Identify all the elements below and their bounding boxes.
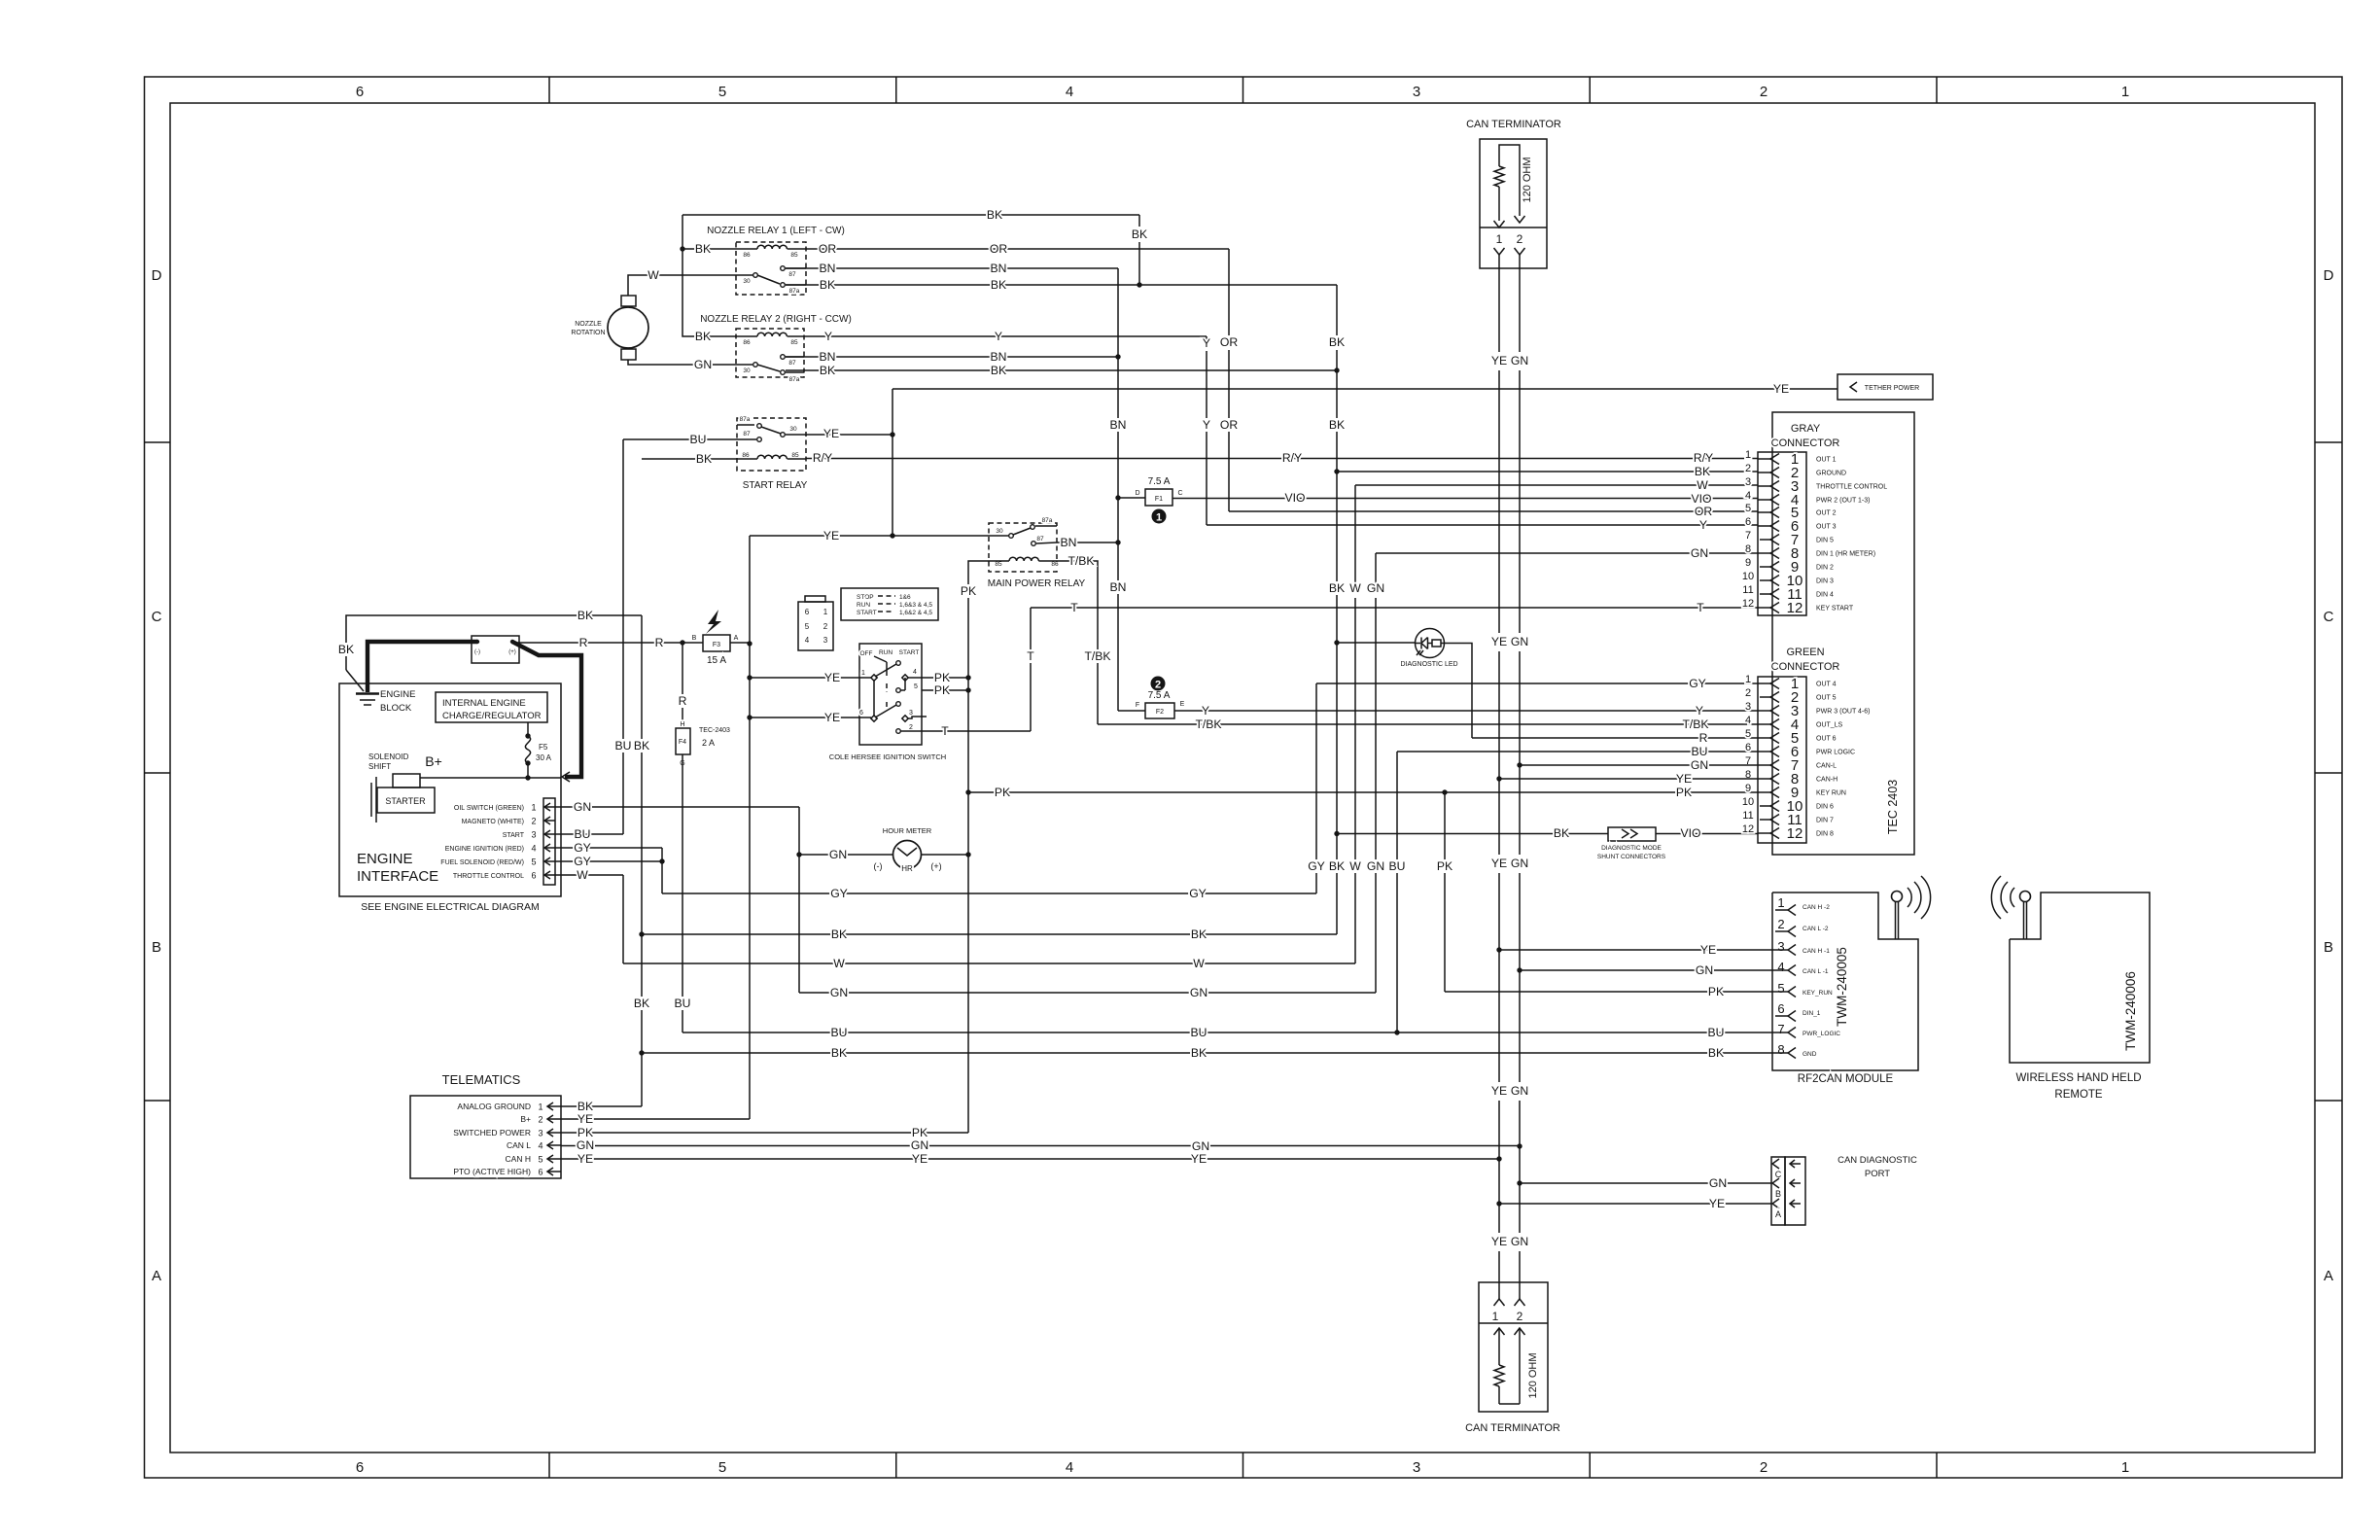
svg-text:PK: PK xyxy=(934,683,950,697)
svg-text:CAN DIAGNOSTIC: CAN DIAGNOSTIC xyxy=(1837,1155,1917,1166)
svg-text:BK: BK xyxy=(1191,927,1207,941)
svg-text:BN: BN xyxy=(1110,418,1127,432)
svg-text:GN: GN xyxy=(1696,963,1713,977)
svg-text:GN: GN xyxy=(694,358,712,371)
svg-text:GN: GN xyxy=(1511,354,1528,367)
svg-text:OUT_LS: OUT_LS xyxy=(1816,722,1843,729)
svg-text:YE: YE xyxy=(577,1152,593,1166)
svg-text:A: A xyxy=(734,635,739,642)
svg-text:PWR LOGIC: PWR LOGIC xyxy=(1816,750,1855,756)
svg-text:5: 5 xyxy=(1745,503,1751,514)
connector block 6-pin xyxy=(798,596,833,650)
svg-text:YE: YE xyxy=(1491,1084,1507,1098)
svg-text:BK: BK xyxy=(1329,418,1345,432)
wire GN CAN L-1 to RF2CAN pin4 xyxy=(1520,963,1772,977)
diagnostic LED xyxy=(1337,629,1458,669)
svg-text:HR: HR xyxy=(901,864,913,873)
svg-text:T/BK: T/BK xyxy=(1067,554,1094,568)
svg-text:BK: BK xyxy=(634,997,649,1010)
svg-text:12: 12 xyxy=(1742,598,1754,610)
svg-text:B: B xyxy=(692,635,697,642)
wire YE CAN-H to green pin8 xyxy=(1499,772,1758,786)
svg-text:MAGNETO (WHITE): MAGNETO (WHITE) xyxy=(462,819,524,825)
svg-text:2: 2 xyxy=(1745,463,1751,474)
engine interface block xyxy=(339,683,561,913)
wire BU F4 output to PWR LOGIC xyxy=(675,745,1772,1039)
svg-text:BN: BN xyxy=(820,350,836,364)
svg-text:STOP: STOP xyxy=(857,594,874,601)
svg-text:GN: GN xyxy=(1709,1176,1727,1190)
svg-text:BN: BN xyxy=(1110,580,1127,594)
svg-text:C: C xyxy=(152,609,162,625)
svg-text:5: 5 xyxy=(1745,728,1751,740)
svg-text:GN: GN xyxy=(1691,758,1708,772)
relay NOZZLE RELAY 1 (LEFT - CW) xyxy=(707,226,845,295)
svg-text:BK: BK xyxy=(987,208,1002,222)
svg-text:2: 2 xyxy=(823,622,828,631)
svg-text:4: 4 xyxy=(1066,1459,1073,1476)
svg-text:6: 6 xyxy=(531,871,536,881)
svg-text:6: 6 xyxy=(1745,516,1751,528)
wire GY row to green pin1 xyxy=(662,677,1758,900)
wire GY engine pins 4,5 xyxy=(555,841,665,893)
svg-text:YE: YE xyxy=(1491,857,1507,870)
svg-text:TEC-2403: TEC-2403 xyxy=(699,727,730,734)
svg-text:BK: BK xyxy=(1191,1046,1207,1060)
svg-text:PK: PK xyxy=(1437,859,1452,873)
svg-text:YE: YE xyxy=(824,711,840,724)
svg-text:INTERNAL ENGINE: INTERNAL ENGINE xyxy=(442,698,526,709)
svg-text:WIRELESS HAND HELD: WIRELESS HAND HELD xyxy=(2015,1072,2141,1084)
svg-text:12: 12 xyxy=(1787,825,1803,842)
relay START RELAY xyxy=(737,416,808,491)
svg-text:YE: YE xyxy=(1773,382,1789,396)
svg-text:120 OHM: 120 OHM xyxy=(1522,157,1533,202)
svg-text:BLOCK: BLOCK xyxy=(380,703,412,714)
wire PK row to green pin9 and RF2CAN xyxy=(968,786,1772,998)
svg-text:REMOTE: REMOTE xyxy=(2054,1089,2103,1101)
wire T ignition pin2 to gray pin12 xyxy=(922,601,1758,738)
svg-text:BK: BK xyxy=(1554,826,1569,840)
svg-text:2: 2 xyxy=(1777,917,1784,931)
svg-text:NOZZLE: NOZZLE xyxy=(575,321,602,328)
svg-text:RUN: RUN xyxy=(857,602,870,609)
svg-text:GY: GY xyxy=(1308,859,1325,873)
svg-text:R: R xyxy=(1699,731,1708,745)
svg-text:FUEL SOLENOID (RED/W): FUEL SOLENOID (RED/W) xyxy=(440,859,524,866)
svg-text:PK: PK xyxy=(577,1126,593,1139)
svg-text:DIAGNOSTIC MODE: DIAGNOSTIC MODE xyxy=(1601,845,1662,852)
svg-text:C: C xyxy=(1177,490,1182,497)
svg-text:CONNECTOR: CONNECTOR xyxy=(1771,437,1840,449)
svg-text:W: W xyxy=(1349,859,1361,873)
svg-text:4: 4 xyxy=(538,1141,542,1151)
svg-text:5: 5 xyxy=(538,1155,542,1165)
svg-text:E: E xyxy=(1180,701,1185,708)
svg-text:R: R xyxy=(679,694,687,708)
svg-text:PWR 2 (OUT 1-3): PWR 2 (OUT 1-3) xyxy=(1816,498,1871,505)
connector TETHER POWER xyxy=(1837,374,1933,400)
svg-text:ENGINE: ENGINE xyxy=(357,851,413,867)
module RF2CAN TWM-240005 xyxy=(1772,876,1931,1085)
svg-text:GRAY: GRAY xyxy=(1791,423,1821,435)
svg-text:START: START xyxy=(899,649,920,656)
charge regulator xyxy=(436,692,547,722)
svg-text:BK: BK xyxy=(831,1046,847,1060)
svg-text:30 A: 30 A xyxy=(536,753,552,762)
wire R to F4 xyxy=(679,643,687,728)
svg-text:BK: BK xyxy=(820,364,835,377)
svg-text:OR: OR xyxy=(1695,505,1712,518)
svg-text:YE: YE xyxy=(577,1112,593,1126)
svg-text:OFF: OFF xyxy=(860,650,873,657)
svg-text:OUT 2: OUT 2 xyxy=(1816,510,1837,517)
relay NOZZLE RELAY 2 (RIGHT - CCW) xyxy=(700,314,852,383)
svg-text:BK: BK xyxy=(695,242,711,256)
wire PK coil to rail xyxy=(961,561,989,1133)
svg-text:ANALOG GROUND: ANALOG GROUND xyxy=(457,1102,531,1111)
svg-text:T/BK: T/BK xyxy=(1195,717,1221,731)
svg-text:BK: BK xyxy=(1132,227,1147,241)
svg-text:86: 86 xyxy=(742,452,750,459)
wire GN to port B xyxy=(1520,1176,1771,1190)
svg-text:4: 4 xyxy=(531,844,536,854)
ground engine block xyxy=(356,689,415,714)
svg-text:CONNECTOR: CONNECTOR xyxy=(1771,661,1840,673)
svg-text:Y: Y xyxy=(1699,518,1707,532)
svg-text:5: 5 xyxy=(531,857,536,867)
svg-text:T/BK: T/BK xyxy=(1084,649,1110,663)
svg-text:1: 1 xyxy=(2121,1459,2129,1476)
svg-text:GY: GY xyxy=(1689,677,1706,690)
svg-text:87: 87 xyxy=(743,431,751,437)
svg-text:CAN H: CAN H xyxy=(506,1154,531,1164)
svg-text:BU: BU xyxy=(575,827,591,841)
connector TELEMATICS xyxy=(410,1072,561,1178)
svg-text:ENGINE: ENGINE xyxy=(380,689,415,700)
svg-text:YE: YE xyxy=(1676,772,1692,786)
svg-text:85: 85 xyxy=(790,339,798,346)
CAN terminator (bottom) xyxy=(1465,1282,1560,1434)
svg-text:A: A xyxy=(1775,1209,1781,1219)
engine interface connector xyxy=(440,798,555,885)
svg-text:1: 1 xyxy=(1745,449,1751,461)
svg-text:BK: BK xyxy=(338,643,354,656)
svg-text:2 A: 2 A xyxy=(702,738,715,748)
solenoid shift + starter xyxy=(368,752,435,822)
svg-text:1: 1 xyxy=(531,803,536,813)
svg-text:85: 85 xyxy=(790,252,798,259)
svg-text:BU: BU xyxy=(1191,1026,1207,1039)
wire OR relay1 out to gray pin5 xyxy=(806,242,1758,518)
svg-text:GN: GN xyxy=(1511,1235,1528,1248)
svg-text:TELEMATICS: TELEMATICS xyxy=(442,1072,521,1087)
callout 1 xyxy=(1152,509,1167,524)
connector GRAY CONNECTOR xyxy=(1742,423,1887,616)
svg-text:CAN L: CAN L xyxy=(507,1140,531,1150)
svg-text:OIL SWITCH (GREEN): OIL SWITCH (GREEN) xyxy=(454,805,524,812)
wire BU start relay 87 xyxy=(615,433,737,834)
wire GN engine pin1 to hour meter xyxy=(555,800,802,993)
svg-text:11: 11 xyxy=(1742,584,1753,596)
svg-text:DIN 4: DIN 4 xyxy=(1816,592,1834,599)
svg-text:2: 2 xyxy=(538,1115,542,1125)
svg-text:GN: GN xyxy=(1367,859,1384,873)
svg-text:D: D xyxy=(1135,490,1139,497)
svg-text:DIN_1: DIN_1 xyxy=(1802,1010,1821,1017)
svg-text:BK: BK xyxy=(1329,335,1345,349)
svg-text:3: 3 xyxy=(909,710,913,717)
svg-text:30: 30 xyxy=(743,367,751,374)
svg-text:PK: PK xyxy=(934,671,950,684)
svg-text:86: 86 xyxy=(743,252,751,259)
svg-text:4: 4 xyxy=(1745,490,1751,502)
svg-text:12: 12 xyxy=(1742,823,1754,835)
svg-text:7.5 A: 7.5 A xyxy=(1148,476,1171,487)
svg-text:W: W xyxy=(833,957,845,970)
svg-text:Y: Y xyxy=(1203,418,1210,432)
svg-text:4: 4 xyxy=(805,636,810,645)
svg-text:H: H xyxy=(680,721,684,728)
svg-text:BK: BK xyxy=(634,739,649,752)
wire Y relay2 out to gray pin6 xyxy=(804,330,1758,532)
svg-text:BK: BK xyxy=(1695,465,1710,478)
fuse F5 30A xyxy=(525,722,551,781)
wire BN main relay 87 xyxy=(1057,536,1118,549)
svg-text:BK: BK xyxy=(1329,581,1345,595)
svg-text:GY: GY xyxy=(1189,887,1207,900)
wire W row to gray pin3 xyxy=(623,478,1758,970)
svg-text:F1: F1 xyxy=(1155,496,1163,503)
svg-text:D: D xyxy=(2324,267,2334,284)
svg-text:OR: OR xyxy=(819,242,836,256)
wire GN CAN-L bus vertical xyxy=(1511,268,1528,1299)
wire GN row to gray pin8 xyxy=(799,546,1758,999)
svg-text:1: 1 xyxy=(1496,232,1503,246)
svg-text:PWR 3 (OUT 4-6): PWR 3 (OUT 4-6) xyxy=(1816,709,1871,716)
relay MAIN POWER RELAY xyxy=(988,517,1086,589)
svg-text:GREEN: GREEN xyxy=(1786,647,1824,658)
svg-text:BK: BK xyxy=(577,609,593,622)
wire BK start relay coil feed xyxy=(642,452,737,466)
svg-text:F3: F3 xyxy=(713,642,720,648)
wire YE telematics pin5 CAN H xyxy=(561,1152,1499,1166)
svg-text:1: 1 xyxy=(1745,674,1751,685)
svg-text:C: C xyxy=(2324,609,2334,625)
svg-text:OR: OR xyxy=(1220,335,1238,349)
svg-text:B+: B+ xyxy=(520,1114,531,1124)
svg-text:87: 87 xyxy=(788,271,796,278)
svg-text:9: 9 xyxy=(1745,783,1751,794)
svg-text:Y: Y xyxy=(1696,704,1703,717)
svg-text:BN: BN xyxy=(991,262,1007,275)
wire YE telematics pin2 B+ xyxy=(561,1112,750,1126)
wire W motor to relay1 xyxy=(628,268,755,296)
svg-text:2: 2 xyxy=(909,724,913,731)
wire Y F2 to green pin3 xyxy=(1174,704,1758,717)
svg-text:6: 6 xyxy=(859,710,863,717)
svg-text:SHIFT: SHIFT xyxy=(368,762,391,771)
wire YE rail to main relay and ignition xyxy=(747,529,1011,1119)
svg-text:CAN H -2: CAN H -2 xyxy=(1802,904,1830,911)
svg-text:SOLENOID: SOLENOID xyxy=(368,752,409,761)
svg-text:YE: YE xyxy=(1491,354,1507,367)
svg-text:(-): (-) xyxy=(874,861,883,871)
svg-text:B+: B+ xyxy=(425,753,442,769)
svg-text:3: 3 xyxy=(538,1129,542,1138)
svg-text:OUT 1: OUT 1 xyxy=(1816,457,1837,464)
svg-text:GN: GN xyxy=(577,1138,594,1152)
svg-text:1: 1 xyxy=(823,608,828,616)
svg-text:W: W xyxy=(1349,581,1361,595)
svg-text:THROTTLE CONTROL: THROTTLE CONTROL xyxy=(453,873,524,880)
svg-text:7: 7 xyxy=(1777,1022,1784,1036)
svg-text:1: 1 xyxy=(1492,1310,1499,1323)
svg-text:INTERFACE: INTERFACE xyxy=(357,868,438,885)
svg-text:GN: GN xyxy=(574,800,591,814)
svg-text:86: 86 xyxy=(1051,561,1059,568)
svg-text:GY: GY xyxy=(574,841,591,855)
svg-text:86: 86 xyxy=(743,339,751,346)
svg-text:R/Y: R/Y xyxy=(1694,451,1713,465)
svg-text:W: W xyxy=(1193,957,1205,970)
svg-text:KEY_RUN: KEY_RUN xyxy=(1802,990,1833,997)
svg-text:8: 8 xyxy=(1745,543,1751,555)
svg-text:BU: BU xyxy=(615,739,632,752)
CAN terminator (top) xyxy=(1466,119,1561,268)
svg-text:6: 6 xyxy=(356,84,364,100)
module TEC 2403 xyxy=(1772,412,1914,855)
svg-text:GN: GN xyxy=(1192,1139,1209,1153)
diagnostic mode shunt connectors xyxy=(1337,826,1758,860)
svg-text:YE: YE xyxy=(823,427,839,440)
svg-text:R: R xyxy=(579,636,588,649)
svg-text:BK: BK xyxy=(991,364,1006,377)
connector GREEN CONNECTOR xyxy=(1742,647,1871,843)
wire W engine pin6 xyxy=(555,868,623,963)
svg-text:PK: PK xyxy=(995,786,1010,799)
svg-text:BK: BK xyxy=(820,278,835,292)
svg-text:OR: OR xyxy=(1220,418,1238,432)
svg-text:TWM-240006: TWM-240006 xyxy=(2123,971,2138,1051)
svg-text:RF2CAN MODULE: RF2CAN MODULE xyxy=(1798,1073,1894,1085)
wire R battery to F3 xyxy=(513,636,703,649)
svg-text:87a: 87a xyxy=(789,376,800,383)
svg-text:BK: BK xyxy=(695,330,711,343)
svg-text:D: D xyxy=(152,267,162,284)
svg-text:YE: YE xyxy=(1700,943,1716,957)
svg-text:YE: YE xyxy=(824,671,840,684)
svg-text:Y: Y xyxy=(995,330,1002,343)
svg-text:OUT 6: OUT 6 xyxy=(1816,736,1837,743)
fuse F1 7.5A xyxy=(1118,476,1183,506)
svg-text:GN: GN xyxy=(1511,857,1528,870)
wire GN hour meter row xyxy=(799,848,968,861)
fuse F2 7.5A xyxy=(1118,690,1185,718)
svg-text:GN: GN xyxy=(829,848,847,861)
svg-text:YE: YE xyxy=(1491,635,1507,648)
svg-text:B: B xyxy=(152,939,161,956)
svg-text:3: 3 xyxy=(1745,701,1751,713)
svg-text:BN: BN xyxy=(991,350,1007,364)
svg-text:PK: PK xyxy=(961,584,976,598)
svg-text:PK: PK xyxy=(912,1126,927,1139)
svg-text:COLE HERSEE IGNITION SWITCH: COLE HERSEE IGNITION SWITCH xyxy=(829,752,946,761)
switch COLE HERSEE IGNITION SWITCH xyxy=(829,644,946,761)
wire B+ thick battery positive xyxy=(512,642,581,782)
svg-text:R/Y: R/Y xyxy=(813,451,832,465)
hour meter xyxy=(874,826,942,873)
svg-text:2: 2 xyxy=(1760,84,1767,100)
svg-text:STARTER: STARTER xyxy=(385,796,426,806)
svg-text:RUN: RUN xyxy=(879,649,892,656)
svg-text:2: 2 xyxy=(531,817,536,826)
wire YE CAN H-1 to RF2CAN pin3 xyxy=(1499,943,1772,957)
wire R F3 to YE rail xyxy=(730,642,750,644)
svg-text:GN: GN xyxy=(911,1138,928,1152)
svg-text:BN: BN xyxy=(1061,536,1077,549)
svg-text:30: 30 xyxy=(789,426,797,433)
svg-text:F: F xyxy=(1136,702,1139,709)
svg-text:2: 2 xyxy=(1745,687,1751,699)
svg-text:15 A: 15 A xyxy=(707,655,726,666)
svg-text:OR: OR xyxy=(990,242,1007,256)
svg-text:TEC 2403: TEC 2403 xyxy=(1886,780,1900,834)
svg-text:GN: GN xyxy=(1511,635,1528,648)
svg-text:T: T xyxy=(1027,649,1034,663)
wire BN relay 87 rows + rail to F2 xyxy=(786,262,1126,711)
svg-text:GN: GN xyxy=(1691,546,1708,560)
svg-text:TWM-240005: TWM-240005 xyxy=(1835,947,1849,1027)
svg-text:BU: BU xyxy=(831,1026,848,1039)
battery xyxy=(472,636,519,663)
svg-text:GND: GND xyxy=(1802,1051,1817,1058)
wire PK ignition outputs xyxy=(922,671,968,697)
svg-text:120 OHM: 120 OHM xyxy=(1527,1352,1539,1398)
svg-text:PTO (ACTIVE HIGH): PTO (ACTIVE HIGH) xyxy=(453,1167,531,1176)
svg-text:3: 3 xyxy=(1777,939,1784,954)
svg-text:MAIN POWER RELAY: MAIN POWER RELAY xyxy=(988,578,1086,589)
svg-text:4: 4 xyxy=(1066,84,1073,100)
svg-text:CAN-H: CAN-H xyxy=(1816,777,1837,784)
svg-text:CAN-L: CAN-L xyxy=(1816,763,1837,770)
wire BK ground rail xyxy=(561,615,1772,1113)
module WIRELESS HAND HELD REMOTE TWM-240006 xyxy=(1991,876,2150,1101)
svg-text:5: 5 xyxy=(805,622,810,631)
wire GN motor to relay2 xyxy=(628,358,752,371)
svg-text:3: 3 xyxy=(1413,84,1420,100)
svg-text:6: 6 xyxy=(805,608,810,616)
svg-text:GN: GN xyxy=(1367,581,1384,595)
svg-text:2: 2 xyxy=(1155,680,1161,691)
svg-text:(-): (-) xyxy=(474,649,480,655)
svg-text:DIN 8: DIN 8 xyxy=(1816,831,1834,838)
svg-text:B: B xyxy=(2324,939,2333,956)
wire GN telematics pin4 CAN L xyxy=(561,1138,1520,1153)
callout 2 xyxy=(1151,677,1166,691)
wire R LED to green pin5 xyxy=(1445,644,1759,746)
svg-text:1&6: 1&6 xyxy=(899,594,911,601)
svg-text:ENGINE IGNITION (RED): ENGINE IGNITION (RED) xyxy=(445,846,524,853)
svg-text:VIO: VIO xyxy=(1681,826,1701,840)
svg-text:CAN L -2: CAN L -2 xyxy=(1802,926,1829,932)
svg-text:T: T xyxy=(1697,601,1704,614)
svg-text:6: 6 xyxy=(1745,742,1751,753)
svg-text:5: 5 xyxy=(718,84,726,100)
svg-text:HOUR METER: HOUR METER xyxy=(883,826,932,835)
wire BU engine pin3 xyxy=(555,827,623,841)
nozzle rotation motor xyxy=(571,296,648,360)
